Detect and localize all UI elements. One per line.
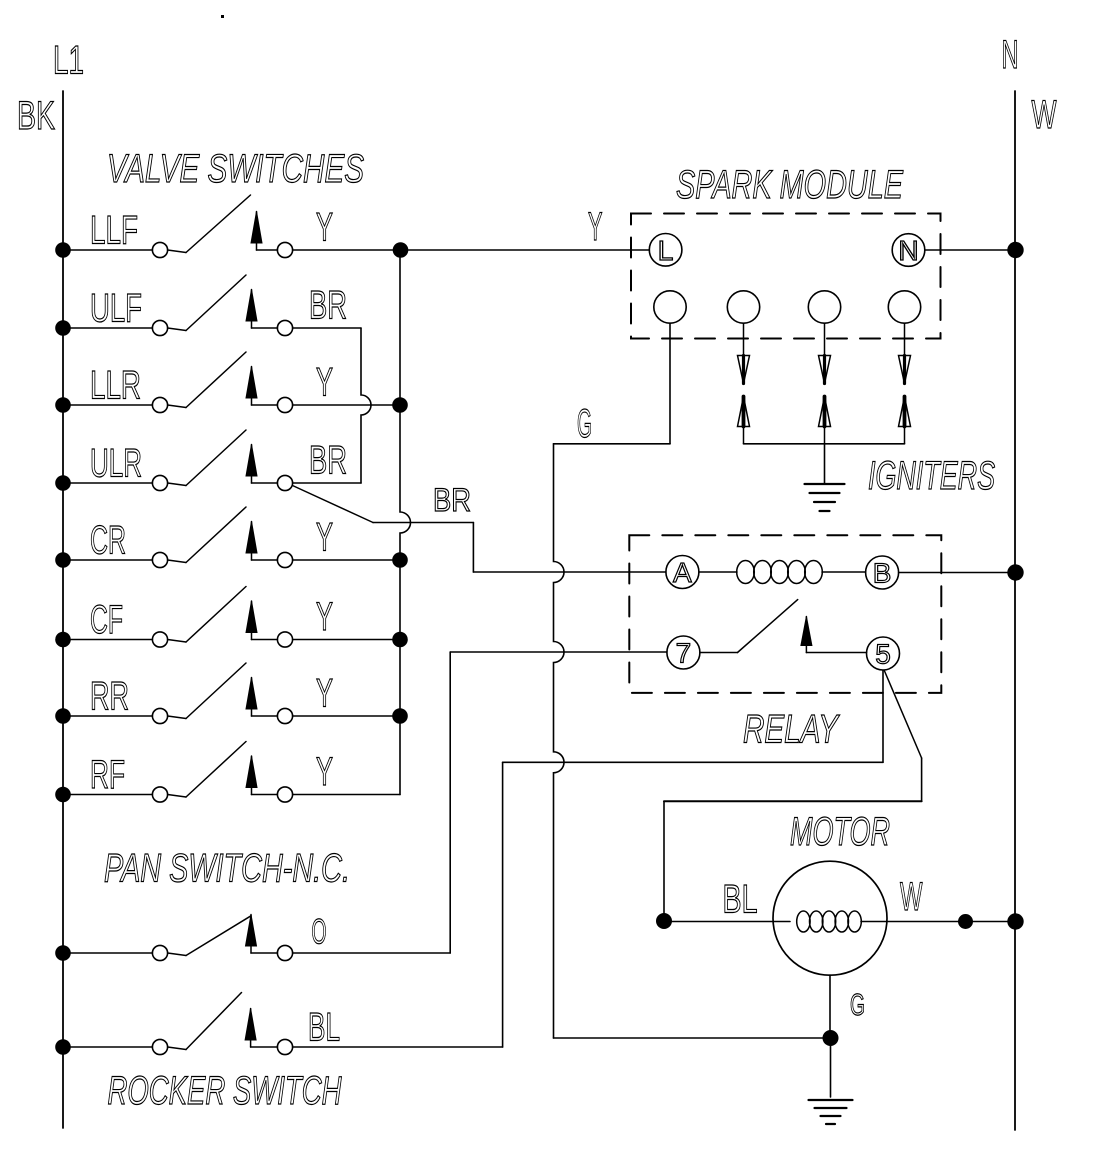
svg-text:CF: CF	[90, 598, 123, 642]
svg-text:BR: BR	[309, 439, 347, 483]
svg-text:RR: RR	[90, 675, 129, 719]
svg-text:B: B	[873, 558, 892, 589]
svg-text:PAN SWITCH-N.C.: PAN SWITCH-N.C.	[104, 847, 350, 891]
svg-text:Y: Y	[316, 672, 333, 716]
svg-text:L1: L1	[53, 39, 84, 83]
svg-text:Y: Y	[316, 206, 333, 250]
svg-text:RELAY: RELAY	[743, 708, 840, 752]
svg-text:ROCKER SWITCH: ROCKER SWITCH	[108, 1069, 342, 1113]
svg-text:BK: BK	[17, 94, 55, 138]
svg-text:W: W	[1032, 93, 1057, 137]
svg-text:SPARK MODULE: SPARK MODULE	[676, 163, 904, 207]
svg-text:G: G	[850, 987, 865, 1022]
svg-text:A: A	[673, 557, 692, 588]
svg-text:ULF: ULF	[90, 287, 142, 331]
svg-text:MOTOR: MOTOR	[790, 810, 890, 854]
svg-text:BL: BL	[723, 878, 758, 922]
svg-text:IGNITERS: IGNITERS	[868, 454, 995, 498]
svg-text:L: L	[658, 235, 674, 266]
svg-text:5: 5	[875, 639, 891, 670]
svg-text:CR: CR	[90, 519, 126, 563]
svg-text:Y: Y	[316, 361, 333, 405]
svg-text:BL: BL	[308, 1006, 340, 1050]
svg-text:LLR: LLR	[90, 364, 141, 408]
svg-text:VALVE SWITCHES: VALVE SWITCHES	[107, 147, 364, 191]
svg-text:Y: Y	[588, 205, 603, 249]
svg-text:O: O	[312, 913, 327, 952]
svg-text:BR: BR	[433, 482, 471, 518]
svg-text:LLF: LLF	[90, 209, 138, 253]
svg-text:RF: RF	[90, 753, 125, 797]
svg-text:G: G	[577, 402, 592, 446]
svg-text:BR: BR	[309, 284, 347, 328]
svg-text:Y: Y	[316, 595, 333, 639]
svg-text:ULR: ULR	[90, 442, 142, 486]
svg-text:7: 7	[676, 638, 692, 669]
svg-text:W: W	[900, 875, 923, 919]
svg-text:N: N	[1002, 33, 1019, 77]
svg-text:Y: Y	[316, 516, 333, 560]
svg-text:N: N	[898, 235, 918, 266]
svg-text:Y: Y	[316, 750, 333, 794]
